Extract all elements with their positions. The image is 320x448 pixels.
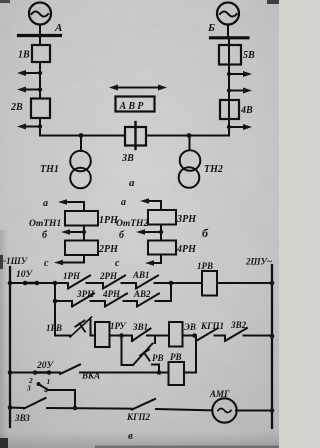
wire 1V down <box>39 62 41 99</box>
feeder arrow right 2 <box>227 88 252 94</box>
contact AV1 <box>132 270 202 289</box>
generator A <box>29 3 51 25</box>
contact KGP1 <box>196 321 225 341</box>
wire 2RN to c <box>83 255 85 263</box>
phase b line left <box>61 229 86 235</box>
breaker 2V <box>31 99 50 119</box>
svg-text:с: с <box>44 258 49 269</box>
svg-text:КГП1: КГП1 <box>200 321 224 331</box>
contact 3RN <box>72 289 105 307</box>
svg-text:1РУ: 1РУ <box>110 321 127 331</box>
feeder arrow left 1 <box>17 70 42 76</box>
svg-text:РВ: РВ <box>170 352 182 362</box>
node RV branch left <box>119 333 124 338</box>
svg-text:а: а <box>121 197 126 208</box>
lamp AMG <box>209 389 272 423</box>
svg-text:2ШУ~: 2ШУ~ <box>245 257 272 267</box>
contact VKA <box>60 365 169 381</box>
wire row2 up to row1 <box>170 283 172 301</box>
node RV branch right <box>192 333 197 338</box>
svg-text:4В: 4В <box>240 105 253 116</box>
svg-text:ЗВ1: ЗВ1 <box>132 322 148 332</box>
svg-text:ЗВ2: ЗВ2 <box>230 320 247 330</box>
svg-text:ЭВ: ЭВ <box>184 322 196 332</box>
svg-text:1РВ: 1РВ <box>197 261 213 271</box>
relay 1RN <box>65 211 98 226</box>
feeder arrow left 3 <box>17 124 42 130</box>
switch 10U <box>10 270 68 285</box>
svg-text:2В: 2В <box>10 102 23 113</box>
transformer TN1 <box>70 151 91 172</box>
svg-text:10У: 10У <box>16 270 34 280</box>
svg-text:КГП2: КГП2 <box>126 412 151 422</box>
phase a line right <box>140 198 161 210</box>
contact 2RN <box>99 271 136 289</box>
relay 3RN <box>148 210 176 225</box>
wire gen B to bus <box>227 25 229 38</box>
wire 1RN to b <box>83 226 85 241</box>
contact 4RN <box>102 289 137 307</box>
svg-text:АВ1: АВ1 <box>132 270 150 280</box>
svg-text:А: А <box>54 22 62 34</box>
coil 1RV <box>197 261 272 296</box>
svg-text:а: а <box>129 177 135 189</box>
svg-text:Б: Б <box>207 22 215 34</box>
wire bus A to 1V <box>39 36 41 45</box>
breaker 5V <box>219 45 241 65</box>
svg-text:4РН: 4РН <box>102 289 121 299</box>
svg-text:4РН: 4РН <box>176 244 197 255</box>
svg-text:ОтТН1: ОтТН1 <box>29 219 61 229</box>
svg-text:2РН: 2РН <box>98 244 119 255</box>
wire left branch vertical <box>54 283 56 336</box>
breaker 1V <box>32 45 50 62</box>
bus B <box>211 36 249 39</box>
breaker 3V (tie) <box>121 122 146 164</box>
contact KGP2 <box>126 399 212 422</box>
breaker 4V <box>220 100 239 119</box>
coil RV <box>169 336 197 386</box>
wire 4RN to c <box>160 255 162 264</box>
relay 2RN <box>65 241 98 256</box>
coil 1RU <box>95 321 132 347</box>
node row1-row2 join <box>169 281 174 286</box>
feeder arrow left 2 <box>17 87 42 93</box>
row4: node <box>8 370 13 375</box>
wire section bus left horizontal <box>40 135 125 137</box>
svg-text:20У: 20У <box>36 361 55 371</box>
contact 3V1 <box>132 322 169 341</box>
contact AV2 <box>133 289 171 307</box>
ABP box <box>116 97 155 112</box>
feeder arrow right 1 <box>227 71 252 77</box>
coil EV <box>169 322 196 347</box>
svg-text:2РН: 2РН <box>99 271 118 281</box>
node TN1 tap <box>79 133 84 138</box>
contact 1RN <box>63 271 103 289</box>
scan edge marks <box>0 0 10 3</box>
row2 branch <box>53 299 58 304</box>
control switch numbers <box>26 376 75 408</box>
row5: node <box>8 405 13 410</box>
contact 3V2 <box>225 320 272 341</box>
svg-text:5В: 5В <box>243 50 255 61</box>
svg-text:ЗРН: ЗРН <box>176 214 197 225</box>
svg-text:АВ2: АВ2 <box>133 289 151 299</box>
phase c line right <box>145 260 161 266</box>
svg-text:1РВ: 1РВ <box>46 323 62 333</box>
generator B <box>217 3 239 25</box>
left rail <box>9 267 11 427</box>
wire section bus right horizontal <box>146 135 229 137</box>
svg-text:3: 3 <box>26 384 31 393</box>
ABP double arrow <box>109 85 167 91</box>
phase a line left <box>58 199 84 211</box>
right rail <box>271 265 273 428</box>
contact 3V3 <box>14 398 132 423</box>
switch 20U <box>10 361 60 375</box>
wire gen A to bus A <box>39 25 41 36</box>
row3: contact 1RV with time delay <box>46 317 95 337</box>
wire TN1 drop <box>80 136 82 152</box>
svg-text:1В: 1В <box>18 50 30 61</box>
wire 3RN to b <box>160 225 162 241</box>
wire right riser <box>228 37 230 136</box>
svg-text:РВ: РВ <box>152 353 164 363</box>
svg-text:ТН1: ТН1 <box>40 164 59 175</box>
wire L to coil RV <box>152 365 159 373</box>
svg-text:с: с <box>115 258 120 269</box>
svg-text:ЗВЗ: ЗВЗ <box>14 413 30 423</box>
svg-text:ЗВ: ЗВ <box>121 153 134 164</box>
row1: node <box>8 281 13 286</box>
phase b line right <box>136 229 163 235</box>
node row1 branch <box>53 281 58 286</box>
transformer TN2 <box>180 150 201 171</box>
phase c line left <box>54 260 84 266</box>
wire TN2 drop <box>189 136 191 151</box>
RV time contact branch <box>122 336 164 366</box>
svg-text:1РН: 1РН <box>63 271 81 281</box>
feeder arrow right 3 <box>227 124 252 130</box>
svg-text:ОтТН2: ОтТН2 <box>116 219 148 229</box>
svg-text:б: б <box>202 226 209 240</box>
relay 4RN <box>148 241 176 255</box>
bus A <box>19 34 61 37</box>
node TN2 tap <box>187 133 192 138</box>
svg-text:ТН2: ТН2 <box>204 164 223 175</box>
svg-text:а: а <box>43 198 48 209</box>
svg-text:АВР: АВР <box>119 101 146 112</box>
wire 2V down <box>39 118 41 136</box>
